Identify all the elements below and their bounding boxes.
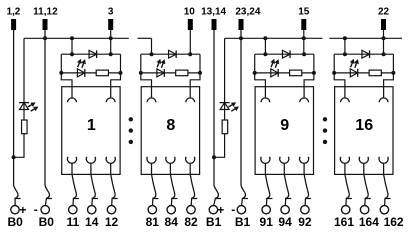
svg-text:16: 16 bbox=[355, 117, 373, 134]
svg-text:+: + bbox=[217, 203, 224, 217]
svg-text:13,14: 13,14 bbox=[201, 6, 226, 17]
svg-text:84: 84 bbox=[165, 215, 179, 229]
svg-text:161: 161 bbox=[334, 215, 354, 229]
svg-text:162: 162 bbox=[384, 215, 404, 229]
svg-text:9: 9 bbox=[280, 117, 289, 134]
svg-text:B1: B1 bbox=[235, 215, 251, 229]
svg-text:1: 1 bbox=[87, 117, 96, 134]
svg-text:-: - bbox=[231, 202, 235, 216]
svg-text:+: + bbox=[19, 203, 26, 217]
svg-text:81: 81 bbox=[146, 215, 160, 229]
svg-text:94: 94 bbox=[278, 215, 292, 229]
svg-text:91: 91 bbox=[260, 215, 274, 229]
svg-text:15: 15 bbox=[298, 6, 310, 17]
svg-text:10: 10 bbox=[184, 6, 196, 17]
svg-text:82: 82 bbox=[184, 215, 198, 229]
svg-text:B0: B0 bbox=[39, 215, 55, 229]
svg-text:164: 164 bbox=[359, 215, 379, 229]
svg-text:12: 12 bbox=[105, 215, 119, 229]
svg-text:11: 11 bbox=[66, 215, 79, 229]
svg-text:23,24: 23,24 bbox=[235, 6, 260, 17]
svg-text:92: 92 bbox=[298, 215, 312, 229]
svg-text:22: 22 bbox=[378, 6, 390, 17]
svg-text:8: 8 bbox=[166, 117, 175, 134]
svg-text:1,2: 1,2 bbox=[6, 6, 20, 17]
svg-text:-: - bbox=[34, 202, 38, 216]
svg-text:3: 3 bbox=[108, 6, 114, 17]
svg-text:14: 14 bbox=[85, 215, 99, 229]
svg-text:11,12: 11,12 bbox=[33, 6, 58, 17]
